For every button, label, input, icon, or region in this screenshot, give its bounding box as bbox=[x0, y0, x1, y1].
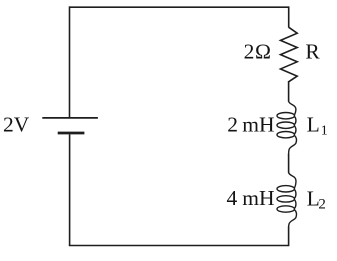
inductor L2 coil entry curve bbox=[289, 172, 296, 188]
wire left vertical upper bbox=[69, 6, 71, 117]
svg-text:4: 4 bbox=[227, 186, 238, 210]
wire left vertical lower bbox=[69, 134, 71, 245]
inductor L1 coil loop ellipse 1 bbox=[277, 113, 295, 119]
inductor L2 coil exit curve bbox=[289, 210, 297, 227]
inductor L1 coil entry curve bbox=[289, 101, 296, 115]
wire right vertical bottom bbox=[288, 227, 290, 247]
battery V1 short plate (-) bbox=[58, 132, 85, 135]
inductor L1 coil bump 1-2 bbox=[295, 117, 296, 125]
svg-text:R: R bbox=[305, 40, 320, 64]
svg-text:mH: mH bbox=[242, 186, 274, 210]
svg-text:mH: mH bbox=[242, 113, 274, 137]
wire top horizontal bbox=[69, 6, 289, 8]
inductor L1 coil bump 2-3 bbox=[295, 126, 296, 134]
resistor R zigzag bbox=[281, 27, 298, 82]
inductor L2 coil bump 2-3 bbox=[295, 200, 296, 209]
svg-text:1: 1 bbox=[321, 124, 328, 139]
wire right vertical top bbox=[288, 6, 290, 27]
svg-text:2: 2 bbox=[227, 113, 238, 137]
svg-text:2V: 2V bbox=[3, 112, 30, 136]
inductor L2 coil loop ellipse 1 bbox=[277, 186, 295, 192]
svg-text:Ω: Ω bbox=[255, 40, 271, 64]
inductor L1 coil loop ellipse 2 bbox=[277, 122, 295, 128]
wire bottom horizontal bbox=[69, 245, 289, 247]
wire between L1 and L2 bbox=[288, 154, 290, 173]
inductor L1 coil exit curve bbox=[289, 136, 297, 155]
svg-text:2: 2 bbox=[244, 40, 255, 64]
inductor L1 coil loop ellipse 3 bbox=[277, 132, 295, 138]
wire between R and L1 bbox=[288, 81, 290, 102]
svg-text:2: 2 bbox=[318, 196, 326, 212]
svg-text:L: L bbox=[307, 113, 320, 137]
inductor L2 coil bump 1-2 bbox=[295, 190, 296, 199]
battery V1 long plate (+) bbox=[42, 117, 98, 119]
inductor L2 coil loop ellipse 2 bbox=[277, 196, 295, 202]
inductor L2 coil loop ellipse 3 bbox=[277, 206, 295, 212]
